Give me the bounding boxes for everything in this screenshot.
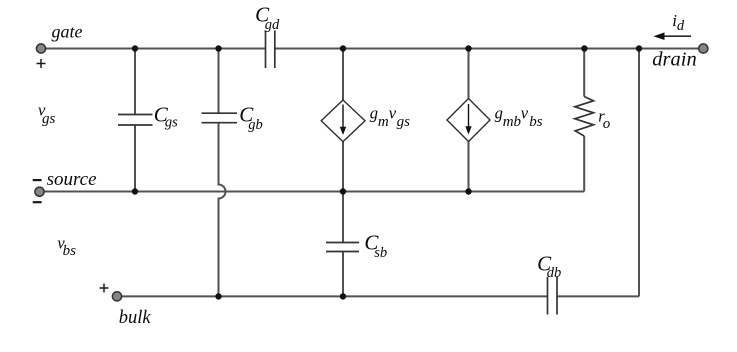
svg-text:gate: gate [52,22,83,42]
svg-text:g: g [370,104,378,123]
svg-text:d: d [677,18,685,34]
svg-text:db: db [547,265,562,281]
svg-text:gb: gb [248,117,263,133]
svg-text:v: v [389,104,397,123]
svg-text:v: v [521,104,529,123]
svg-text:o: o [603,116,611,132]
svg-text:gs: gs [165,114,178,130]
svg-text:gd: gd [265,17,280,33]
svg-text:gs: gs [397,114,411,130]
svg-text:g: g [495,104,503,123]
svg-text:source: source [47,169,97,190]
svg-text:m: m [378,114,389,130]
svg-text:bs: bs [63,243,77,259]
svg-text:bulk: bulk [119,308,152,328]
svg-text:mb: mb [503,114,522,130]
svg-text:sb: sb [374,245,387,261]
svg-text:gs: gs [42,111,56,127]
svg-text:drain: drain [652,49,696,71]
svg-text:bs: bs [529,114,543,130]
